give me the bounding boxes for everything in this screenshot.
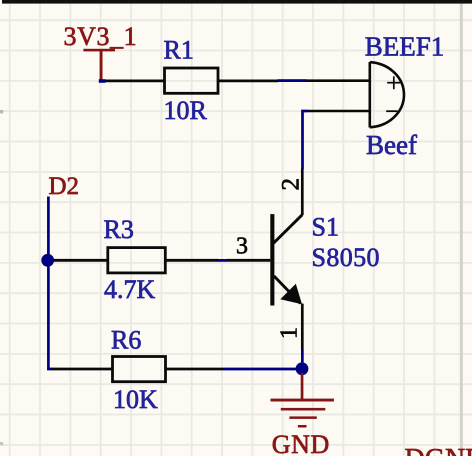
plus polarity mark <box>387 76 400 89</box>
wire R6 to emitter junction <box>224 368 297 371</box>
junction node D2/R3 <box>41 254 54 267</box>
svg-text:R6: R6 <box>111 326 141 355</box>
svg-text:Beef: Beef <box>366 130 417 160</box>
svg-text:3V3_1: 3V3_1 <box>64 22 138 51</box>
power port 3V3_1 <box>83 49 115 80</box>
svg-text:1: 1 <box>277 327 303 339</box>
minus polarity mark <box>386 110 397 112</box>
svg-text:DGND: DGND <box>405 444 472 456</box>
wire R1 to BEEF1 <box>278 79 307 82</box>
wire R3 to base <box>218 259 227 262</box>
svg-text:R1: R1 <box>164 36 194 65</box>
svg-text:2: 2 <box>277 178 304 191</box>
svg-text:3: 3 <box>236 234 248 260</box>
ground GND <box>271 373 334 428</box>
sheet border line (decorative frame) <box>460 0 463 456</box>
wire D2 vertical to R6 row <box>48 197 53 370</box>
svg-text:R3: R3 <box>104 215 134 244</box>
svg-text:4.7K: 4.7K <box>104 275 156 304</box>
svg-text:10K: 10K <box>113 385 158 414</box>
transistor S1 <box>270 169 302 351</box>
svg-text:S1: S1 <box>312 213 339 242</box>
svg-text:GND: GND <box>272 430 330 456</box>
svg-text:S8050: S8050 <box>312 243 380 272</box>
resistor R3 <box>54 248 218 273</box>
svg-text:BEEF1: BEEF1 <box>365 31 445 61</box>
wire 3V3 to R1 pin <box>99 79 106 83</box>
wire BEEF1 to collector <box>303 111 308 169</box>
junction node emitter/R6/GND <box>296 362 309 375</box>
svg-text:10R: 10R <box>164 96 208 125</box>
resistor R1 <box>106 68 279 93</box>
resistor R6 <box>52 357 224 382</box>
svg-text:D2: D2 <box>49 173 80 200</box>
buzzer BEEF1 <box>306 62 404 128</box>
wire emitter to junction <box>301 350 304 369</box>
base pin wire <box>227 259 271 262</box>
top black bar (decorative frame) <box>2 0 472 4</box>
